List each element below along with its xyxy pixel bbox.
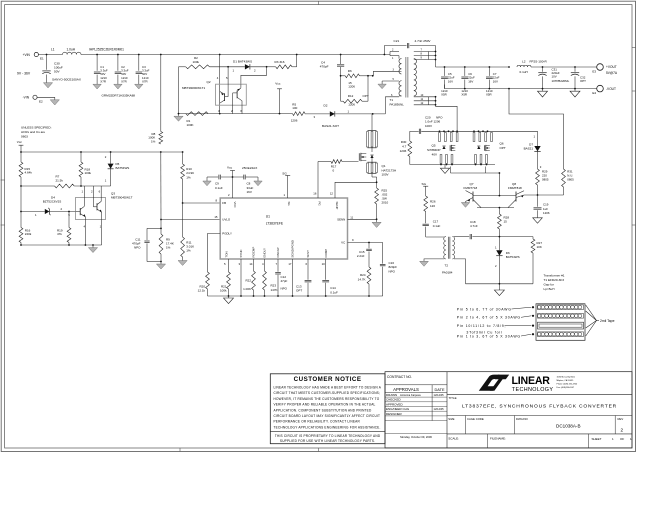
svg-text:Monday, October 09, 2006: Monday, October 09, 2006 <box>400 435 432 439</box>
svg-text:PA1836NL: PA1836NL <box>390 103 405 107</box>
wire main input rail <box>81 54 390 56</box>
svg-text:L2: L2 <box>522 59 526 63</box>
wire T2 bottom rail <box>466 283 534 285</box>
svg-text:0805: 0805 <box>567 178 574 182</box>
capacitor C5 <box>441 67 455 96</box>
logo LT mark <box>479 375 509 391</box>
svg-text:15: 15 <box>214 215 218 219</box>
svg-text:X7R: X7R <box>121 79 127 83</box>
svg-text:SENN: SENN <box>337 218 345 222</box>
svg-text:DATE: DATE <box>434 387 444 392</box>
inductor L1 <box>51 48 81 55</box>
svg-text:HOWEVER, IT REMAINS THE CUSTOM: HOWEVER, IT REMAINS THE CUSTOMERS RESPON… <box>274 397 380 401</box>
pin label SGND/PGND <box>288 240 294 266</box>
svg-text:47k: 47k <box>57 232 62 236</box>
resistor R29 <box>536 169 549 195</box>
wire PGDLY to R20 <box>208 234 221 273</box>
svg-text:LT3837EFE, SYNCHRONOUS FLYBACK: LT3837EFE, SYNCHRONOUS FLYBACK CONVERTER <box>462 404 617 410</box>
svg-text:IHPL2525CZER1R0M01: IHPL2525CZER1R0M01 <box>89 48 124 52</box>
wire Q8 emitter <box>523 191 525 195</box>
svg-text:2.2nF: 2.2nF <box>357 254 365 258</box>
capacitor C1 <box>94 54 108 85</box>
wire E2 to ground <box>37 97 55 100</box>
svg-text:1.00K: 1.00K <box>243 287 251 291</box>
resistor R21 <box>220 259 230 296</box>
label T2 <box>442 263 453 274</box>
resistor R16 <box>19 228 32 246</box>
svg-text:0603: 0603 <box>21 135 28 139</box>
svg-text:ROCMP: ROCMP <box>252 247 256 258</box>
wire R6 left rail <box>340 75 342 101</box>
svg-text:VCC: VCC <box>233 202 237 208</box>
title text <box>462 404 617 410</box>
approvals column line <box>446 372 448 448</box>
svg-text:COMP: COMP <box>324 249 328 258</box>
svg-text:12.1k: 12.1k <box>198 289 206 293</box>
ground below C31 <box>538 89 548 97</box>
svg-text:16: 16 <box>313 191 317 195</box>
svg-text:4.7nF 250V: 4.7nF 250V <box>415 39 432 43</box>
wire Q8 collector <box>508 200 516 208</box>
resistor R12 <box>341 94 369 107</box>
svg-text:R12: R12 <box>348 94 354 98</box>
svg-text:X5R: X5R <box>441 92 447 96</box>
svg-text:LT3837EFE: LT3837EFE <box>266 222 284 226</box>
capacitor C6 <box>461 67 475 96</box>
resistor R23 <box>263 259 278 296</box>
wire D2 to T1 pin6 <box>335 113 385 115</box>
wire control bottom rail <box>20 244 102 246</box>
wire Q1 source pins <box>367 158 378 188</box>
transformer T1 secondary pins 7 8 9 <box>414 49 437 61</box>
pin labels Q3 top <box>82 190 101 194</box>
diode D4 <box>21 195 76 217</box>
winding row 1 wire circles <box>537 305 583 310</box>
transistor Q2a <box>220 67 228 103</box>
scale row divider <box>447 433 632 435</box>
pin label PG <box>318 202 322 207</box>
pin label OSCAP <box>275 247 280 265</box>
pin number VC 9 <box>352 238 354 242</box>
ground control <box>88 245 97 253</box>
svg-text:47pF: 47pF <box>281 279 288 283</box>
svg-text:15: 15 <box>504 220 508 224</box>
svg-text:ENG/NEER CHG: ENG/NEER CHG <box>386 407 410 411</box>
resistor R11 <box>181 203 194 261</box>
svg-text:2010: 2010 <box>382 201 389 205</box>
inductor L2 <box>517 59 547 74</box>
svg-text:SUPPLIED FOR USE WITH LINEAR T: SUPPLIED FOR USE WITH LINEAR TECHNOLOGY … <box>280 439 375 443</box>
frame tick left <box>1 180 5 225</box>
ground below R25 <box>372 219 381 227</box>
svg-text:NPO: NPO <box>281 286 288 290</box>
pin label SENN <box>337 218 345 222</box>
capacitor C2 <box>115 54 129 85</box>
transistor Q6 <box>477 142 506 151</box>
wire left chain <box>20 186 22 228</box>
capacitor C14 <box>322 259 338 296</box>
ground below C1 <box>93 84 101 89</box>
svg-text:FMMT818: FMMT818 <box>508 186 522 190</box>
resistor R5 <box>291 102 305 122</box>
ground below D6 <box>494 284 504 296</box>
wire T1 pin3 <box>373 56 401 76</box>
svg-text:SYNC: SYNC <box>239 249 243 257</box>
svg-text:17: 17 <box>288 262 292 266</box>
svg-text:1630 McCarthy Blvd.: 1630 McCarthy Blvd. <box>557 375 576 378</box>
resistor R8 <box>148 54 162 144</box>
wire Q7 Q8 base rail <box>473 195 516 197</box>
label Q3 <box>111 191 133 199</box>
svg-text:VC: VC <box>341 241 345 245</box>
frame tick bottom <box>180 448 319 452</box>
capacitor C11 <box>132 228 162 263</box>
svg-text:NPO: NPO <box>389 270 396 274</box>
ground below R9 <box>156 264 165 269</box>
svg-text:T2: T2 <box>445 263 449 267</box>
resistor R24 <box>358 267 371 296</box>
wire L2 to E3 <box>531 66 597 68</box>
svg-text:U1: U1 <box>266 215 270 219</box>
pin label VCC <box>233 202 237 208</box>
power flag Vcc at R5 <box>275 82 282 115</box>
pin labels Q2 top <box>217 76 228 80</box>
approvals rows <box>385 393 447 421</box>
svg-text:12: 12 <box>330 191 334 195</box>
svg-text:Fax: (408)434-0507: Fax: (408)434-0507 <box>557 387 575 389</box>
svg-text:APPROVED: APPROVED <box>386 402 404 406</box>
label U1 <box>266 215 284 226</box>
svg-text:0805: 0805 <box>542 178 549 182</box>
svg-text:THIS CIRCUIT IS PROPRIETARY TO: THIS CIRCUIT IS PROPRIETARY TO LINEAR TE… <box>275 434 381 438</box>
svg-text:220k: 220k <box>25 232 32 236</box>
pin label SFST <box>305 250 310 266</box>
svg-text:4.7nF: 4.7nF <box>470 224 478 228</box>
transistor Q2 box <box>216 84 247 105</box>
signal flag SG at T2 <box>422 182 429 196</box>
scale row <box>448 434 632 448</box>
svg-text:OSCAP: OSCAP <box>276 247 280 257</box>
wire collector line <box>477 207 514 209</box>
svg-text:X5R: X5R <box>461 92 467 96</box>
svg-text:10TPB220ML: 10TPB220ML <box>552 79 570 83</box>
wire R2 rail <box>179 65 230 69</box>
resistor R22 <box>243 259 255 296</box>
transformer T1 primary top winding <box>399 59 402 74</box>
label L1 part number <box>89 48 124 52</box>
wire sync gate bus <box>451 167 501 196</box>
resistor R27 <box>531 237 542 284</box>
svg-text:10: 10 <box>322 262 326 266</box>
svg-text:MBT3906DW1T1: MBT3906DW1T1 <box>182 86 206 90</box>
title block outline <box>385 372 632 448</box>
svg-text:1206: 1206 <box>348 85 355 89</box>
svg-text:REV: REV <box>618 417 624 421</box>
svg-text:SG: SG <box>287 202 291 207</box>
winding note pin10 <box>457 324 534 328</box>
wire Vcc node <box>207 176 258 178</box>
pin label ENDLY <box>262 248 267 266</box>
svg-text:CIRCUIT THAT MEETS CUSTOMER-SU: CIRCUIT THAT MEETS CUSTOMER-SUPPLIED SPE… <box>274 391 381 395</box>
wire output top rail <box>436 66 510 68</box>
wire SYNC riser <box>240 259 242 296</box>
wire R8 to divider <box>160 152 162 220</box>
diode D1 <box>228 60 267 73</box>
wire T1 pin6 <box>385 94 401 114</box>
IC U1 box <box>220 198 347 259</box>
svg-text:APPROVALS: APPROVALS <box>393 387 419 392</box>
svg-text:16V: 16V <box>247 190 252 194</box>
svg-text:ENDLY: ENDLY <box>263 248 267 257</box>
svg-text:16V: 16V <box>493 79 498 83</box>
svg-text:GRM32DR71H335KA88: GRM32DR71H335KA88 <box>102 94 136 98</box>
svg-text:100K: 100K <box>187 123 194 127</box>
wire pin4 vertical <box>219 54 221 114</box>
resistor R28 <box>498 208 510 237</box>
svg-text:OPT: OPT <box>296 289 302 293</box>
capacitor C21 <box>384 39 436 67</box>
transistor Q1 <box>359 153 396 177</box>
ground sync <box>440 165 449 174</box>
ground below C3 <box>135 84 143 89</box>
transformer T1 secondary pins 10 11 12 <box>414 94 437 106</box>
wire UVLO <box>161 215 220 219</box>
svg-text:0.1uH: 0.1uH <box>520 70 528 74</box>
label T1 <box>390 98 405 107</box>
transistor Q7 <box>464 182 478 203</box>
svg-text:16V: 16V <box>448 79 453 83</box>
resistor R18 <box>79 152 91 186</box>
approvals header <box>385 385 447 421</box>
svg-text:1206: 1206 <box>543 211 550 215</box>
svg-text:X7R: X7R <box>100 79 106 83</box>
svg-text:SCALE:: SCALE: <box>448 436 459 440</box>
svg-text:-VOUT: -VOUT <box>606 87 616 91</box>
svg-text:FP2S-100-R: FP2S-100-R <box>530 59 548 63</box>
wire T1 pin5 <box>382 78 399 84</box>
svg-text:E4: E4 <box>592 91 596 95</box>
svg-text:Gap for: Gap for <box>544 283 554 287</box>
svg-text:SG: SG <box>422 182 427 186</box>
svg-text:SIZE: SIZE <box>448 417 454 421</box>
pin label SG <box>287 202 291 207</box>
svg-text:1%: 1% <box>186 175 191 179</box>
wire SENP <box>335 181 378 198</box>
svg-text:+VOUT: +VOUT <box>606 65 617 69</box>
transistor Q3 box <box>76 198 106 220</box>
wire SENN <box>348 218 378 220</box>
approvals date cell <box>385 434 447 439</box>
label R2 <box>193 56 200 64</box>
ground left of C9 <box>203 177 211 186</box>
svg-text:Pin 2 to 4, 6T of 5 X 30AWG: Pin 2 to 4, 6T of 5 X 30AWG <box>457 316 521 320</box>
transistor Q8 <box>508 182 524 202</box>
wire C17 to T2 <box>426 236 445 238</box>
svg-text:1206: 1206 <box>348 103 355 107</box>
svg-text:UNLESS SPECIFIED:: UNLESS SPECIFIED: <box>21 126 52 130</box>
svg-text:5V@7A: 5V@7A <box>606 71 618 75</box>
svg-text:100k: 100k <box>193 60 200 64</box>
capacitor C20 <box>410 115 443 134</box>
wire PG gate <box>318 162 331 199</box>
wire Q2 junction <box>219 113 221 115</box>
svg-text:0.1uF: 0.1uF <box>330 290 338 294</box>
svg-text:SENP: SENP <box>335 202 339 210</box>
svg-text:100k: 100k <box>85 171 92 175</box>
resistor R20 <box>198 272 210 296</box>
wire R29 R31 node <box>524 194 564 196</box>
capacitor C31 <box>538 67 569 89</box>
terminal E3 <box>592 64 618 75</box>
svg-text:11: 11 <box>350 215 353 219</box>
terminal E4 <box>592 85 616 95</box>
svg-text:SFST: SFST <box>306 250 310 258</box>
ground below C2 <box>114 84 122 89</box>
pin number PG 16 <box>313 191 317 195</box>
ground Q7 <box>461 203 469 208</box>
svg-text:OF: OF <box>620 437 624 441</box>
svg-text:CAGE CODE: CAGE CODE <box>467 417 484 421</box>
svg-text:PA0184: PA0184 <box>442 271 453 275</box>
wire control mid rail <box>20 185 82 187</box>
winding stack box <box>536 304 585 341</box>
signal flag SG above U1 <box>282 171 290 198</box>
svg-text:R6: R6 <box>348 69 352 73</box>
svg-text:Vcc: Vcc <box>275 82 281 86</box>
capacitor C18 <box>470 220 478 239</box>
svg-text:Antonina Karpeva: Antonina Karpeva <box>400 393 421 397</box>
svg-text:TITLE: TITLE <box>449 396 457 400</box>
ground T2 <box>420 261 429 266</box>
winding tape bracket <box>586 305 599 336</box>
power flag Vcc left <box>17 140 24 162</box>
resistor R17 <box>331 160 359 173</box>
svg-text:Q2: Q2 <box>207 80 211 84</box>
note transformer1 <box>544 274 565 292</box>
svg-text:2mil Tape: 2mil Tape <box>600 319 615 323</box>
winding note pin5 <box>457 306 534 311</box>
transformer T1 primary pins 1 2 <box>390 49 399 60</box>
wire Vcc bias bottom <box>179 113 293 115</box>
svg-text:100V: 100V <box>425 124 432 128</box>
svg-text:Transformer #1: Transformer #1 <box>544 274 565 278</box>
pin labels Q2 bottom <box>218 109 242 113</box>
ground below C19 <box>533 218 543 223</box>
svg-text:X5R: X5R <box>486 92 492 96</box>
transistor Q3a <box>76 186 86 245</box>
svg-text:Vcc: Vcc <box>227 165 233 169</box>
ground at E2 <box>50 100 59 105</box>
customer notice title <box>294 376 362 383</box>
resistor R19 <box>57 212 71 246</box>
svg-text:T1 EFD20-3F3: T1 EFD20-3F3 <box>544 278 565 282</box>
svg-text:LINEAR: LINEAR <box>512 375 551 387</box>
capacitor C9 <box>215 175 223 190</box>
svg-text:DC1038A-B: DC1038A-B <box>556 423 581 428</box>
svg-text:PGDLY: PGDLY <box>222 232 232 236</box>
svg-text:0.1uF: 0.1uF <box>215 186 223 190</box>
svg-text:147K: 147K <box>271 288 278 292</box>
transistor Q5 drain pins <box>439 133 458 142</box>
svg-text:1%: 1% <box>151 139 156 143</box>
svg-text:E3: E3 <box>592 70 596 74</box>
svg-text:BAT54WS: BAT54WS <box>116 166 130 170</box>
svg-text:1206: 1206 <box>400 149 407 153</box>
wire VOUT sense <box>509 89 564 169</box>
svg-text:NPO: NPO <box>134 246 141 250</box>
frame tick top <box>318 1 320 4</box>
ground bottom rail <box>224 296 234 304</box>
svg-text:CUSTOMER NOTICE: CUSTOMER NOTICE <box>294 376 362 383</box>
svg-text:100k: 100k <box>220 289 227 293</box>
capacitor C7 <box>486 67 500 96</box>
wire Q7 collector <box>473 200 481 208</box>
ground T1 shield <box>378 84 386 89</box>
pin label FB <box>222 201 226 205</box>
pin label SYNC <box>238 249 243 265</box>
wire secondary bottom <box>436 97 458 132</box>
svg-text:1%: 1% <box>186 249 191 253</box>
svg-text:120: 120 <box>430 204 435 208</box>
diode D7 <box>524 131 542 169</box>
diode D2 <box>314 104 350 128</box>
wire VC <box>348 242 383 244</box>
wire Vcc rail <box>20 151 183 153</box>
svg-text:CONTRACT NO.: CONTRACT NO. <box>387 375 412 379</box>
logo LINEAR text <box>512 375 554 393</box>
svg-text:C21: C21 <box>394 39 400 43</box>
wire C18 to node <box>472 236 533 238</box>
svg-text:Milpitas, CA 95035: Milpitas, CA 95035 <box>557 379 575 382</box>
label Q2 <box>182 80 211 90</box>
contract box <box>385 375 447 385</box>
capacitor C17 <box>423 212 441 238</box>
svg-text:1206: 1206 <box>291 119 298 123</box>
svg-text:0.1uF: 0.1uF <box>433 224 441 228</box>
capacitor C32 <box>571 67 586 89</box>
svg-text:TECHNOLOGY: TECHNOLOGY <box>512 387 554 393</box>
svg-text:Pin 10/11/12 to 7/8/9,: Pin 10/11/12 to 7/8/9, <box>457 324 507 328</box>
svg-text:TON: TON <box>225 251 229 257</box>
resistor R26 <box>424 196 436 212</box>
label 2mil tape <box>600 319 615 323</box>
svg-text:BAS21-SOT: BAS21-SOT <box>322 124 339 128</box>
pin number SENP 12 <box>330 191 334 195</box>
svg-text:14: 14 <box>249 262 253 266</box>
wire E1 to L1 <box>38 54 62 56</box>
logo cell divider <box>447 394 632 396</box>
transistor Q3b <box>93 186 101 245</box>
power flag Vcc above U1 <box>227 165 257 198</box>
svg-text:PERFORMANCE OR RELIABILITY. C: PERFORMANCE OR RELIABILITY. CONTACT LINE… <box>274 420 361 424</box>
resistor R9 <box>159 220 174 265</box>
winding row 3 foil <box>538 322 584 329</box>
resistor R7 <box>55 175 111 188</box>
transistor Q6 drain pins <box>473 133 492 142</box>
svg-text:T1: T1 <box>390 98 394 102</box>
winding row 2 wire circles <box>537 314 583 319</box>
winding note pin2 <box>457 315 534 320</box>
svg-text:D2: D2 <box>324 104 328 108</box>
svg-text:FILENAME:: FILENAME: <box>490 436 506 440</box>
resistor R31 <box>562 169 575 195</box>
note unless specified <box>21 126 52 139</box>
svg-text:E1: E1 <box>40 56 44 60</box>
winding note pin1 <box>457 333 534 338</box>
svg-text:1%: 1% <box>166 246 171 250</box>
terminal E2 <box>23 95 43 103</box>
svg-text:Phone: (408) 432-1900: Phone: (408) 432-1900 <box>557 383 578 385</box>
